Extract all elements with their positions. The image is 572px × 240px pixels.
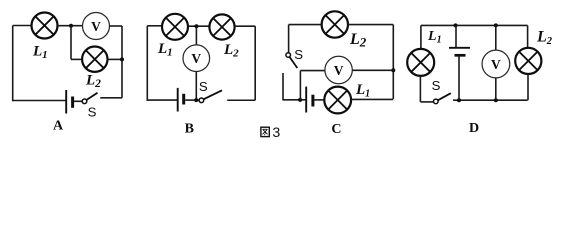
svg-text:C: C xyxy=(331,122,341,137)
svg-text:A: A xyxy=(53,119,64,134)
svg-text:S: S xyxy=(294,47,303,62)
svg-text:3: 3 xyxy=(272,125,280,141)
svg-text:V: V xyxy=(491,57,501,72)
svg-text:V: V xyxy=(191,51,201,66)
svg-text:S: S xyxy=(432,78,441,93)
svg-text:D: D xyxy=(469,121,479,136)
svg-text:L2: L2 xyxy=(349,31,367,50)
svg-text:S: S xyxy=(88,104,97,119)
svg-text:B: B xyxy=(185,122,194,137)
svg-text:S: S xyxy=(199,79,208,94)
svg-text:V: V xyxy=(334,63,344,78)
svg-text:V: V xyxy=(91,19,101,34)
